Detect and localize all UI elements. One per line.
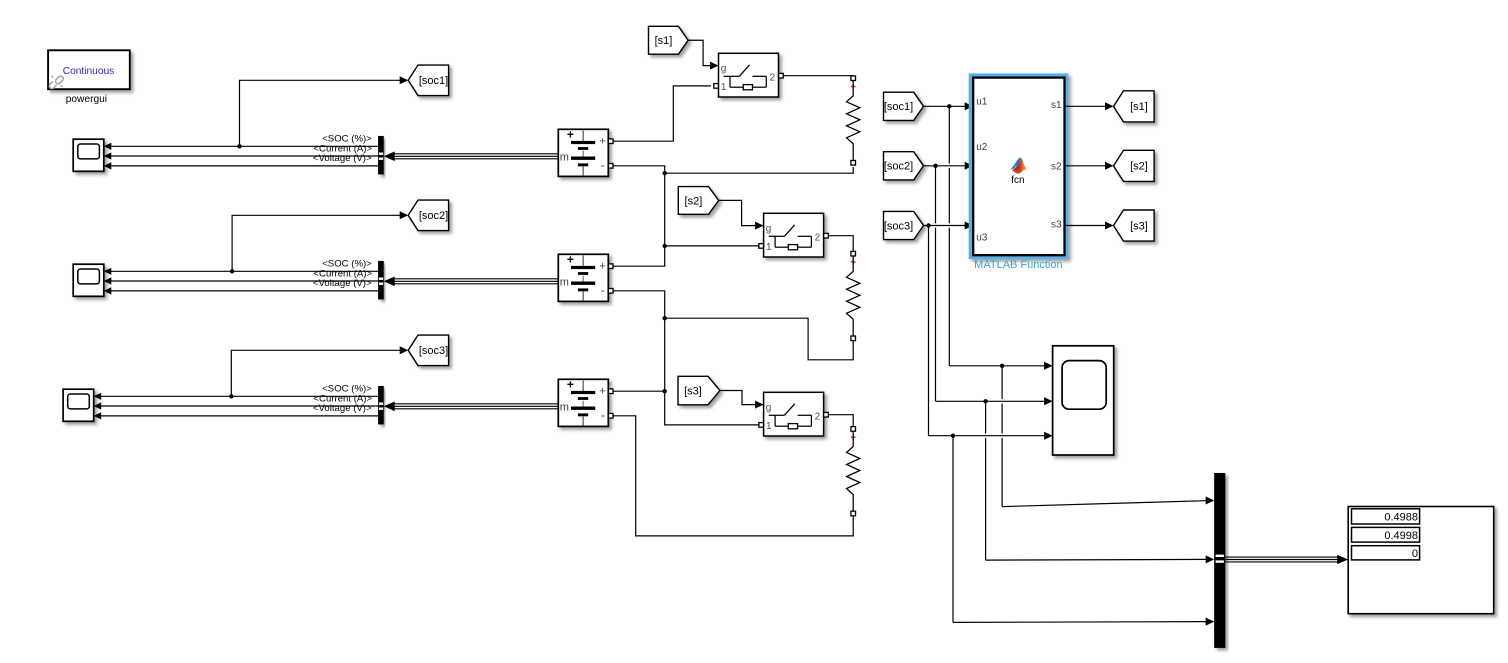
goto tag [s1] [1114, 91, 1155, 122]
wire node N2 to switch S2 port1 [665, 245, 759, 247]
junction dot on soc1 wire [947, 104, 951, 108]
svg-text:1: 1 [766, 242, 772, 253]
svg-text:0.4998: 0.4998 [1384, 530, 1418, 542]
svg-text:[s2]: [s2] [1130, 161, 1148, 173]
arrowhead into Scope4 in1 [1044, 362, 1053, 370]
junction dot on SOC line row3 [229, 394, 233, 398]
svg-text:[soc2]: [soc2] [884, 161, 913, 173]
from tag [s2] [678, 187, 718, 215]
svg-text:[soc1]: [soc1] [884, 101, 913, 113]
bus selector 3 (black bar) [378, 386, 384, 424]
scope Scope4 (SOC comparison) [1053, 346, 1114, 455]
arrowhead into Goto [soc2] [400, 211, 409, 219]
svg-text:+: + [567, 378, 574, 392]
svg-text:[s3]: [s3] [1130, 220, 1148, 232]
junction dot on SOC line row2 [230, 269, 234, 273]
arrowhead into bus selector 3 [384, 402, 395, 412]
wire [s3] to switch S3 gate [720, 391, 756, 405]
wire MATLAB fn s2 to Goto [s2] [1065, 165, 1107, 167]
wire soc2 tap down to scope wire (with hops) [935, 166, 937, 224]
svg-text:+: + [567, 253, 574, 267]
wire [soc1] to MATLAB fn u1 [924, 105, 966, 107]
svg-text:[soc3]: [soc3] [884, 220, 913, 232]
svg-text:s1: s1 [1051, 100, 1062, 111]
svg-text:u2: u2 [976, 142, 988, 153]
battery B1 - port [608, 164, 613, 169]
svg-text:0: 0 [1412, 548, 1418, 560]
wire bus-selector 3 out2 to Scope3 in2 [101, 405, 378, 407]
svg-text:[soc2]: [soc2] [419, 210, 448, 222]
arrowhead into S2 gate [755, 222, 764, 230]
arrowhead into mux in3 [1206, 618, 1215, 626]
scope Scope1 (battery 1 measurements) [73, 139, 104, 171]
scope Scope3 (battery 3 measurements) [63, 389, 94, 421]
arrowhead into mux in1 [1206, 497, 1215, 505]
junction dot on soc2 wire [933, 164, 937, 168]
MATLAB Function block U1 body [973, 78, 1064, 256]
svg-text:[s2]: [s2] [685, 195, 703, 207]
wire [soc2] to MATLAB fn u2 [924, 165, 966, 167]
svg-text:-: - [601, 408, 605, 422]
ideal switch S1 (Ideal Switch block) [719, 53, 779, 97]
svg-text:2: 2 [815, 411, 821, 422]
svg-text:MATLAB Function: MATLAB Function [974, 259, 1062, 271]
bus wire mux to display [1225, 556, 1338, 558]
resistor R1 (series RLC branch) [851, 76, 856, 81]
wire battery B1 + to switch S1 port1 [613, 86, 711, 141]
MATLAB Function block U1 (selection highlight) [969, 74, 1068, 259]
wire MATLAB fn s1 to Goto [s1] [1065, 105, 1107, 107]
bus wire battery 3 m-output to bus selector 3 [393, 403, 559, 405]
junction dot on soc3 wire [926, 223, 930, 227]
display value box 1 [1352, 509, 1420, 524]
svg-text:+: + [599, 260, 605, 272]
svg-text:-: - [601, 158, 605, 172]
arrowhead into Goto [soc3] [400, 346, 409, 354]
wire node N2 down to battery B2 + [613, 246, 665, 266]
svg-text:2: 2 [815, 232, 821, 243]
wire [s1] to switch S1 gate [688, 40, 711, 65]
arrowhead into Goto [s3] [1105, 222, 1114, 230]
wire switch S2 port2 to resistor R2 top [828, 236, 853, 252]
wire soc3 branch to Scope4 in3 [929, 435, 1046, 437]
from tag [soc3] (input to MATLAB fn) [884, 211, 924, 239]
wire bus-selector 2 out2 to Scope2 in2 [111, 280, 378, 282]
goto tag [soc1] [408, 65, 448, 96]
battery B3 + port [608, 389, 613, 394]
arrowhead into bus selector 2 [384, 277, 395, 287]
arrowhead into u2 [965, 162, 974, 170]
wire [s2] to switch S2 gate [719, 200, 756, 225]
display block (Display) [1348, 507, 1494, 614]
node N2 junction dot [663, 244, 667, 248]
battery B2 + port [608, 264, 613, 269]
svg-text:+: + [567, 128, 574, 142]
switch S3 port 2 [824, 412, 829, 417]
wire SOC tap to Goto [soc1] [240, 80, 401, 146]
wire switch S1 port2 to resistor R1 top [783, 75, 853, 77]
battery B2 (Battery block) [558, 254, 608, 301]
wire battery B2 - to node N3 [613, 291, 665, 318]
goto tag [soc3] [408, 335, 448, 366]
svg-text:powergui: powergui [66, 94, 107, 105]
svg-text:s2: s2 [1051, 161, 1062, 172]
arrowhead into S1 gate [710, 62, 719, 70]
wire SOC tap to Goto [soc3] [231, 350, 400, 396]
arrowhead into S3 gate [755, 401, 764, 409]
wire scope4-in1 tap down to mux in1 (with hops) [1001, 366, 1003, 399]
wire soc1 tap down to scope wire (with hops) [948, 106, 950, 163]
battery B1 + port [608, 139, 613, 144]
wire node N1 down to switch S2 port1 tap [664, 173, 666, 246]
switch S3 port 1 [759, 423, 764, 428]
ideal switch S3 (Ideal Switch block) [764, 392, 824, 436]
wire node N3 down to battery B3 + tap [664, 318, 666, 391]
svg-text:g: g [766, 224, 772, 235]
switch S2 port 2 [824, 233, 829, 238]
goto tag [s3] [1114, 210, 1155, 241]
svg-text:g: g [766, 403, 772, 414]
node N1 junction dot [663, 171, 667, 175]
battery B2 - port [608, 289, 613, 294]
arrowhead into mux in2 [1206, 555, 1215, 563]
wire bus-selector 3 out1 to Scope3 in1 [101, 395, 378, 397]
node N4 junction dot [663, 389, 667, 393]
svg-text:u1: u1 [976, 97, 988, 108]
wire SOC tap to Goto [soc2] [232, 215, 400, 271]
svg-text:m: m [560, 152, 569, 164]
svg-text:2: 2 [770, 72, 776, 83]
arrowheads into Scope2 [104, 268, 112, 275]
resistor R3 (series RLC branch) [851, 427, 856, 432]
switch S1 port 1 [714, 84, 719, 89]
wire bus-selector 1 out2 to Scope1 in2 [111, 155, 378, 157]
display value box 3 [1352, 546, 1420, 560]
svg-text:+: + [599, 385, 605, 397]
MATLAB membrane logo [1010, 158, 1026, 174]
wire switch S3 port2 to resistor R3 top [828, 415, 853, 427]
wire battery B1 - to node N1 [613, 166, 665, 173]
resistor R2 (series RLC branch) [851, 251, 856, 256]
arrowhead into Goto [soc1] [400, 76, 409, 84]
node N3 junction dot [663, 316, 667, 320]
bus selector 2 (black bar) [378, 261, 384, 299]
ideal switch S2 (Ideal Switch block) [764, 213, 824, 257]
battery B3 - port [608, 414, 613, 419]
display value box 2 [1352, 527, 1420, 542]
wire node N3 to resistor R2 bottom [665, 318, 854, 360]
svg-text:1: 1 [721, 82, 727, 93]
wire resistor R3 bottom to battery B3 - [613, 416, 853, 536]
svg-text:-: - [601, 283, 605, 297]
wire scope4-in2 tap down to mux in2 (with hops) [985, 401, 987, 433]
wire MATLAB fn s3 to Goto [s3] [1065, 225, 1107, 227]
wire node N4 to battery B3 + [613, 390, 665, 392]
svg-text:<Voltage (V)>: <Voltage (V)> [313, 153, 372, 164]
svg-text:Continuous: Continuous [63, 66, 115, 77]
svg-text:g: g [721, 64, 727, 75]
wire bus-selector 3 out3 to Scope3 in3 [101, 415, 378, 417]
svg-text:m: m [560, 402, 569, 414]
wire bus-selector 2 out3 to Scope2 in3 [111, 290, 378, 292]
svg-text:<Voltage (V)>: <Voltage (V)> [313, 278, 372, 289]
wire soc1 branch to Scope4 in1 [949, 365, 1045, 367]
svg-text:<Voltage (V)>: <Voltage (V)> [313, 403, 372, 414]
svg-text:[s1]: [s1] [655, 35, 673, 47]
junction dot scope4 in2 [983, 399, 987, 403]
svg-text:+: + [599, 135, 605, 147]
svg-text:[s1]: [s1] [1130, 101, 1148, 113]
wire soc3 tap down to scope wire [928, 226, 930, 436]
wire [soc3] to MATLAB fn u3 [924, 225, 966, 227]
svg-text:[soc3]: [soc3] [419, 345, 448, 357]
svg-text:[s3]: [s3] [684, 386, 702, 398]
wire resistor R1 bottom to node N1 [665, 167, 854, 173]
wire node N4 down to switch S3 port1 [665, 391, 759, 425]
powergui broken-link icon [48, 75, 64, 90]
bus wire battery 1 m-output to bus selector 1 [393, 153, 559, 155]
from tag [s1] [649, 26, 689, 54]
bus wire battery 2 m-output to bus selector 2 [393, 278, 559, 280]
arrowhead into bus selector 1 [384, 152, 395, 162]
scope Scope2 (battery 2 measurements) [73, 264, 104, 296]
svg-text:1: 1 [766, 421, 772, 432]
goto tag [soc2] [408, 200, 448, 231]
arrowhead into Scope4 in3 [1044, 432, 1053, 440]
goto tag [s2] [1114, 150, 1155, 181]
svg-text:s3: s3 [1051, 219, 1062, 230]
switch S1 port 2 [779, 73, 784, 78]
wire bus-selector 1 out1 to Scope1 in1 [111, 145, 378, 147]
junction dot on SOC line row1 [237, 144, 241, 148]
svg-text:m: m [560, 277, 569, 289]
bus selector 1 (black bar) [378, 136, 384, 174]
svg-text:u3: u3 [976, 233, 988, 244]
svg-text:[soc1]: [soc1] [419, 75, 448, 87]
battery B3 (Battery block) [558, 379, 608, 426]
from tag [soc1] (input to MATLAB fn) [884, 92, 924, 120]
wire scope4-in3 tap down to mux in3 [952, 436, 954, 623]
powergui block [48, 50, 130, 89]
arrowheads into Scope1 [104, 143, 112, 150]
battery B1 (Battery block) [558, 129, 608, 176]
arrowhead into display [1337, 555, 1348, 564]
mux (black bar) [1214, 473, 1225, 648]
svg-text:0.4988: 0.4988 [1384, 511, 1418, 523]
svg-text:fcn: fcn [1011, 175, 1024, 186]
arrowhead into Goto [s1] [1105, 102, 1114, 110]
switch S2 port 1 [759, 244, 764, 249]
from tag [s3] [678, 376, 720, 405]
wire bus-selector 2 out1 to Scope2 in1 [111, 270, 378, 272]
wire bus-selector 1 out3 to Scope1 in3 [111, 165, 378, 167]
junction dot scope4 in3 [951, 434, 955, 438]
arrowhead into u1 [965, 102, 974, 110]
junction dot scope4 in1 [1000, 364, 1004, 368]
from tag [soc2] (input to MATLAB fn) [884, 152, 924, 180]
arrowheads into Scope3 [94, 393, 102, 400]
arrowhead into Scope4 in2 [1044, 397, 1053, 405]
wire soc2 branch to Scope4 in2 [936, 400, 1046, 402]
arrowhead into u3 [965, 222, 974, 230]
arrowhead into Goto [s2] [1105, 162, 1114, 170]
